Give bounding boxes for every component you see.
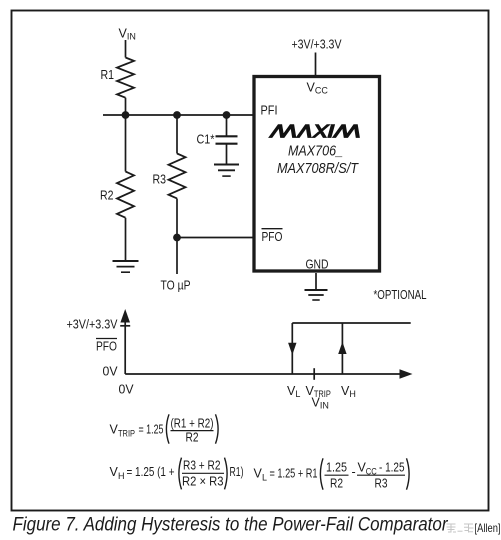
wire GND pin [315, 273, 317, 290]
svg-text:PFO: PFO [262, 230, 283, 244]
svg-text:= 1.25: = 1.25 [139, 423, 164, 437]
svg-text:Figure 7. Adding Hysteresis to: Figure 7. Adding Hysteresis to the Power… [13, 513, 449, 535]
junction node PFO [173, 234, 181, 242]
tick 3.3V level [120, 325, 130, 327]
svg-text:0V: 0V [119, 383, 135, 397]
wire C1 to ground [226, 145, 228, 165]
svg-text:PFI: PFI [261, 104, 278, 118]
label PFO waveform [96, 339, 117, 354]
svg-text:1.25: 1.25 [326, 461, 347, 475]
formula VH [110, 458, 244, 490]
wire Vcc supply [315, 53, 317, 76]
svg-text:*OPTIONAL: *OPTIONAL [374, 288, 427, 302]
svg-text:VIN: VIN [119, 27, 136, 42]
x axis arrowhead [400, 369, 413, 379]
svg-text:-: - [352, 465, 356, 479]
wire PFO node to uP [176, 238, 178, 275]
svg-text:TRIP: TRIP [118, 428, 135, 438]
x axis [125, 373, 403, 375]
svg-text:R2 × R3: R2 × R3 [182, 475, 224, 489]
svg-text:VH: VH [341, 384, 356, 399]
svg-text:0V: 0V [103, 365, 119, 379]
wire VIN to R1 [125, 40, 127, 58]
svg-text:R1): R1) [230, 465, 244, 479]
svg-text:VL: VL [287, 384, 300, 399]
svg-text:TO µP: TO µP [161, 279, 191, 293]
IC U1 MAX706 box [254, 77, 380, 272]
svg-text:C1*: C1* [197, 133, 215, 147]
formula VTRIP [110, 414, 219, 444]
resistor R1 [117, 58, 134, 98]
pin label PFO with overline [262, 229, 283, 244]
falling edge arrowhead [288, 343, 296, 355]
waveform rising edge [341, 323, 343, 374]
formula VL [254, 458, 410, 490]
wire PFI horizontal [103, 114, 253, 116]
svg-text:MAX706_: MAX706_ [288, 143, 343, 159]
wire node to C1 [226, 115, 228, 136]
wire R1 to node [125, 98, 127, 115]
svg-text:R2: R2 [330, 477, 343, 491]
svg-text:H: H [118, 471, 125, 481]
svg-text:R1: R1 [101, 68, 115, 82]
svg-text:R2: R2 [100, 189, 114, 203]
svg-text:+3V/+3.3V: +3V/+3.3V [67, 318, 119, 332]
svg-text:MAX708R/S/T: MAX708R/S/T [277, 161, 359, 177]
svg-text:(R1 + R2): (R1 + R2) [171, 417, 214, 431]
wire R2 to ground [125, 218, 127, 261]
y axis [124, 320, 126, 374]
svg-text:R3: R3 [153, 173, 167, 187]
svg-text:+3V/+3.3V: +3V/+3.3V [292, 38, 343, 52]
hysteresis plot axes [120, 320, 411, 380]
wire R3 to PFO node [176, 199, 178, 238]
junction node C1 top [223, 111, 231, 119]
resistor R3 [169, 154, 186, 199]
junction node PFI-R1R2 [122, 111, 130, 119]
watermark [447, 524, 474, 533]
MAXIM logo [268, 124, 360, 138]
svg-text:R2: R2 [186, 431, 199, 445]
wire PFO horizontal [177, 237, 253, 239]
svg-text:PFO: PFO [96, 340, 117, 354]
svg-text:- 1.25: - 1.25 [379, 461, 405, 475]
capacitor C1 plates [216, 135, 238, 137]
ground below R2 [113, 261, 139, 272]
waveform falling edge [291, 323, 293, 374]
ground below C1 [214, 165, 239, 177]
ground below GND pin [305, 290, 328, 300]
junction node R3 top [173, 111, 181, 119]
svg-text:L: L [262, 472, 267, 482]
svg-text:= 1.25 (1 +: = 1.25 (1 + [127, 465, 175, 479]
y axis arrowhead [120, 309, 130, 323]
tick VTRIP [313, 368, 315, 380]
svg-text:R3: R3 [375, 477, 388, 491]
wire node to R2 [125, 115, 127, 172]
svg-text:GND: GND [306, 258, 329, 272]
waveform top line [292, 322, 410, 324]
wire node to R3 [176, 115, 178, 154]
svg-text:= 1.25 + R1: = 1.25 + R1 [270, 467, 318, 481]
svg-text:R3 + R2: R3 + R2 [183, 459, 221, 473]
resistor R2 [117, 172, 134, 218]
rising edge arrowhead [338, 342, 346, 354]
svg-text:[Allen]: [Allen] [475, 521, 501, 535]
